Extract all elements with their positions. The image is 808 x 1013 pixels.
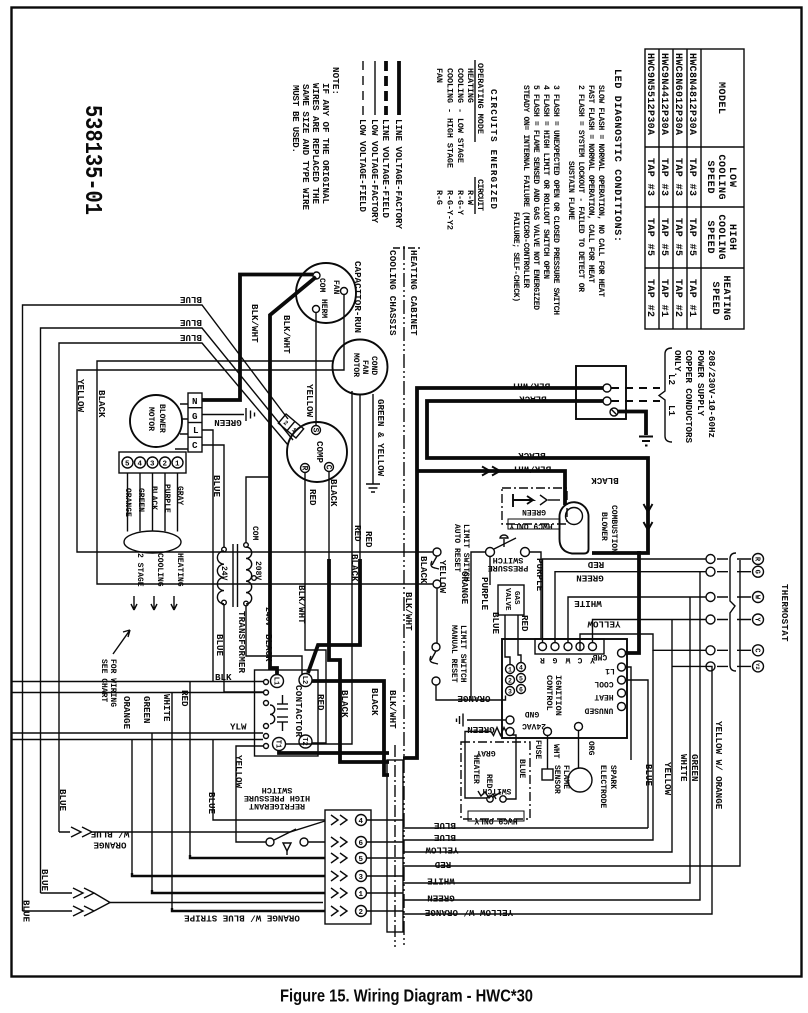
svg-text:UNUSED: UNUSED [584,706,613,715]
wire bottom bus yellow w orange [403,666,712,914]
svg-text:TAP #2: TAP #2 [672,279,683,317]
svg-text:FAN: FAN [360,360,369,375]
wire bottom bus blue2 [403,650,653,840]
svg-text:BLACK: BLACK [96,390,107,418]
wire black 240V to L2 [246,606,302,674]
wire pressure sw left orange [471,552,486,700]
svg-text:CIRCUITS ENERGIZED: CIRCUITS ENERGIZED [488,89,499,209]
wire C row [580,634,706,651]
svg-text:YELLOW W/ ORANGE: YELLOW W/ ORANGE [424,907,513,918]
svg-text:TAP #3: TAP #3 [672,158,683,196]
svg-text:MUST BE USED.: MUST BE USED. [290,85,301,153]
svg-text:ORG: ORG [586,741,595,756]
svg-text:5 FLASH = FLAME SENSED AND GAS: 5 FLASH = FLAME SENSED AND GAS VALVE NOT… [531,85,540,310]
svg-text:N: N [192,396,198,407]
svg-text:BLUE: BLUE [39,869,50,892]
svg-text:COOLING CHASSIS: COOLING CHASSIS [387,250,398,336]
wire orange w blue via chevrons [59,821,325,837]
svg-text:BLOWER: BLOWER [157,404,166,433]
cabinet divider dashed line vertical [403,246,405,945]
svg-text:OPERATING MODE: OPERATING MODE [475,63,485,134]
svg-text:GREEN: GREEN [467,724,495,735]
svg-text:BLUE: BLUE [214,634,225,657]
ground G3 power [618,412,646,436]
svg-text:R-W: R-W [465,190,475,206]
svg-text:TAP #5: TAP #5 [644,218,655,256]
svg-text:GREEN: GREEN [136,488,145,512]
wire Y row [593,620,707,643]
svg-text:LED DIAGNOSTIC CONDITIONS:: LED DIAGNOSTIC CONDITIONS: [611,69,622,242]
svg-text:RED: RED [307,489,318,506]
svg-text:208/230V-1Ø-60Hz: 208/230V-1Ø-60Hz [706,350,717,438]
ground G4 ignition [457,714,507,727]
svg-text:HEAT: HEAT [594,692,613,701]
svg-text:3: 3 [150,461,155,469]
svg-text:WHITE: WHITE [161,694,172,722]
wire bottom bus yellow [403,620,672,853]
wire border feeds h2 [11,692,263,694]
svg-text:BLUE: BLUE [490,612,501,635]
svg-text:COPPER CONDUCTORS: COPPER CONDUCTORS [683,350,694,443]
wire blower feed bold [417,471,565,505]
svg-text:GREEN: GREEN [576,573,604,584]
svg-text:PURPLE: PURPLE [534,558,545,592]
svg-text:YELLOW: YELLOW [425,845,459,856]
connector strip numbered 4 6 5 3 1 2 [325,810,371,924]
compressor terminal R [301,464,310,473]
power supply bracket [659,348,672,442]
wire orange drop to pin3 [131,740,133,874]
svg-text:YELLOW: YELLOW [437,560,448,594]
svg-text:COOL: COOL [594,679,613,688]
svg-text:TAP #5: TAP #5 [672,218,683,256]
flame sensor [542,728,570,795]
svg-text:SPEED: SPEED [709,282,720,315]
svg-text:MOTOR: MOTOR [146,407,155,431]
terminal strip 1-5 blower speed taps [119,452,186,473]
svg-text:HWC9N4412P30A: HWC9N4412P30A [658,53,669,135]
contactor [255,670,319,756]
svg-text:538135-01: 538135-01 [78,105,105,215]
svg-text:T1: T1 [274,740,282,748]
svg-text:BLK: BLK [215,672,232,683]
svg-text:STEADY ON= INTERNAL FAILURE (M: STEADY ON= INTERNAL FAILURE (MICRO-CONTR… [521,85,530,288]
labels: wire colours class a vertical [21,304,725,923]
svg-text:1: 1 [359,891,364,899]
svg-text:WHITE: WHITE [427,876,455,887]
svg-text:BLUE: BLUE [179,294,202,305]
chevrons on blower feed [482,467,500,476]
gas valve [498,585,524,615]
ground G1 blower [202,408,255,421]
svg-text:ORANGE: ORANGE [457,693,491,704]
wire power black bold [427,401,648,553]
labels: reversed class c [90,294,620,924]
svg-text:3: 3 [508,689,512,696]
svg-text:Y2: Y2 [754,663,761,670]
svg-text:RED: RED [434,859,451,870]
wire yellow capacitor fan [77,295,433,552]
wire L2 blk/wht bold to edge connector [312,681,389,775]
wire pressure sw right purple [530,552,542,639]
svg-text:HIGH: HIGH [726,224,737,250]
wire W row [568,597,706,643]
svg-text:SEE CHART: SEE CHART [99,659,108,702]
svg-text:BLUE: BLUE [21,900,32,923]
svg-text:VALVE: VALVE [503,588,511,611]
svg-text:YELLOW: YELLOW [662,762,673,796]
molex pins 1-6 [506,663,526,696]
svg-text:HEATER: HEATER [471,755,480,784]
svg-text:BLACK: BLACK [263,634,274,662]
svg-text:BLACK: BLACK [518,450,546,461]
svg-text:POWER SUPPLY: POWER SUPPLY [695,350,706,416]
svg-text:SUSTAIN FLAME: SUSTAIN FLAME [566,161,575,220]
svg-text:GREEN: GREEN [689,754,700,782]
svg-text:R: R [300,466,309,471]
svg-text:BLUE: BLUE [179,317,202,328]
wire merged blue pair [110,902,323,904]
manual reset limit switch [430,625,467,685]
wire purple gas valve [489,557,491,586]
svg-text:RED: RED [352,525,363,542]
svg-text:COM: COM [250,526,259,541]
svg-text:PURPLE: PURPLE [479,577,490,611]
svg-text:PURPLE: PURPLE [162,484,171,513]
svg-text:SLOW FLASH = NORMAL OPERATION,: SLOW FLASH = NORMAL OPERATION, NO CALL F… [596,85,605,297]
wire manual reset to molex orange [436,685,506,700]
motor M1 condenser fan motor [333,340,388,395]
svg-text:TAP #5: TAP #5 [686,218,697,256]
HWC9 only dash-dot box combustion [502,488,567,530]
svg-text:BLACK: BLACK [591,475,619,486]
svg-text:6: 6 [359,840,364,848]
svg-text:ORANGE: ORANGE [123,488,132,517]
wire red comp R to T2 [305,473,326,744]
legend: low voltage factory sample [374,61,376,115]
svg-text:FOR WIRING: FOR WIRING [108,659,117,707]
wire transformer COM up [246,477,270,543]
wire auto to manual reset link [436,588,438,643]
wire COM to L1 bold [270,277,316,675]
wire blue 24V to contactor coil [224,605,263,692]
svg-text:G: G [192,411,198,422]
svg-text:L2: L2 [666,374,677,385]
svg-text:GREEN: GREEN [427,893,455,904]
svg-text:GRAY: GRAY [175,486,184,505]
svg-text:L1: L1 [666,405,677,417]
svg-text:MANUAL RESET: MANUAL RESET [449,625,458,683]
wire black comp C [328,472,330,561]
wire blower to NGLC [175,404,188,449]
svg-text:LINE VOLTAGE-FIELD: LINE VOLTAGE-FIELD [380,119,391,218]
svg-text:COOLING: COOLING [715,215,726,260]
svg-text:FAN: FAN [434,68,444,83]
svg-text:W: W [565,655,570,664]
wire red cond fan down [285,391,352,744]
svg-text:2 FLASH = SYSTEM LOCKOUT - FAI: 2 FLASH = SYSTEM LOCKOUT - FAILED TO DET… [576,85,585,292]
svg-text:R: R [540,655,545,664]
wire G row [555,572,706,643]
svg-text:YELLOW W/ ORANGE: YELLOW W/ ORANGE [713,721,724,810]
svg-text:RED: RED [519,615,530,632]
thermostat [706,553,764,672]
primary coil 208V 240V [246,547,252,604]
svg-text:BLACK: BLACK [369,688,380,716]
spark electrode [568,723,617,809]
svg-text:2 STAGE: 2 STAGE [135,553,144,587]
transformer T1 [217,526,272,673]
wire red drop to pin5 [189,682,191,855]
svg-text:BLUE: BLUE [433,832,456,843]
svg-text:BLUE: BLUE [206,792,217,815]
svg-text:LOW: LOW [726,167,737,187]
wire yellow herm to S [315,313,317,426]
svg-text:BLK/WHT: BLK/WHT [511,381,550,392]
wire blue 1 chevron joint [23,903,111,917]
wire blue 2 chevron joint [41,888,111,903]
wire yellow contactor to pressure switch [236,746,266,842]
svg-text:YELLOW: YELLOW [75,379,86,413]
legend: low voltage field sample [362,61,364,115]
svg-text:S: S [311,428,320,433]
capacitor terminal HERM [313,306,320,313]
wire border feeds h4 [11,739,263,741]
compressor plug connector 2 1 [278,414,303,438]
chevrons down on black [644,504,653,530]
svg-text:LOW VOLTAGE-FACTORY: LOW VOLTAGE-FACTORY [369,119,380,223]
wire 24vac gray into heater box [465,732,516,800]
svg-text:HWC9 ONLY: HWC9 ONLY [474,816,517,825]
see chart arrow [113,630,130,654]
svg-text:BLK/WHT: BLK/WHT [512,464,551,475]
svg-text:L1: L1 [272,677,280,685]
capacitor terminal FAN [341,288,348,295]
svg-text:HEATING CABINET: HEATING CABINET [408,250,419,336]
wire gas valve blue to pin1 [505,615,510,664]
svg-text:GREEN: GREEN [141,696,152,724]
wire L cell to contactor BLK [202,430,213,682]
wire cmb to blower circuit [626,551,640,653]
svg-text:4 FLASH = HIGH LIMIT OR ROLLOU: 4 FLASH = HIGH LIMIT OR ROLLOUT SWITCH O… [541,85,550,279]
svg-text:BLACK: BLACK [328,479,339,507]
wire gas valve red to pin4 [518,615,521,662]
pressure switch [486,535,530,573]
wire ignition L1 [626,667,632,760]
svg-text:TAP #3: TAP #3 [658,158,669,196]
svg-text:GAS: GAS [512,591,520,605]
svg-text:YELLOW: YELLOW [587,619,621,630]
svg-text:HEATING: HEATING [720,276,731,321]
svg-text:LINE VOLTAGE-FACTORY: LINE VOLTAGE-FACTORY [393,119,404,229]
svg-text:MODEL: MODEL [715,82,726,114]
svg-text:G: G [753,570,761,574]
svg-text:HWC8N4812P30A: HWC8N4812P30A [686,53,697,135]
svg-text:R-G-Y: R-G-Y [455,190,465,216]
svg-text:L2: L2 [300,676,308,684]
ground G2 cond fan [366,394,380,492]
svg-text:SPARK: SPARK [608,765,617,789]
HWC9 only dash-dot box heater [461,742,530,825]
svg-text:TAP #3: TAP #3 [644,158,655,196]
wire ignition cool [626,680,649,828]
svg-text:COOLING - HIGH STAGE: COOLING - HIGH STAGE [445,68,455,168]
svg-text:ONLY.: ONLY. [672,350,683,377]
svg-text:HERM: HERM [319,299,328,318]
svg-text:CONTROL: CONTROL [544,675,554,711]
wire border feeds h3 ylw [11,732,263,734]
wire bottom bus blue1 [403,827,648,829]
svg-text:6: 6 [519,687,523,694]
wire bottom bus red [403,560,740,866]
svg-text:COMBUSTION: COMBUSTION [609,505,618,553]
motor M2 blower motor [130,395,182,447]
wire border feeds h1 [11,681,263,683]
svg-text:4: 4 [519,665,523,672]
legend: line voltage field sample [384,61,388,115]
refrigerant high pressure switch [244,785,310,855]
svg-text:FAN: FAN [331,280,340,295]
wire blue 1 left [23,305,289,911]
svg-text:GREEN: GREEN [522,507,546,516]
wire blue 2 left [41,328,294,893]
dashed field leads L2 L1 [611,387,660,389]
svg-text:L1: L1 [605,666,615,675]
wire black cond fan down bold to L2 [359,394,361,560]
svg-text:2: 2 [359,909,364,917]
wire connector strip to edge connector [367,820,404,911]
svg-text:BLK/WHT: BLK/WHT [296,585,307,624]
wire pressure switch to pin6 [308,841,325,843]
wire blue 3 left [59,343,288,832]
svg-text:REFRIGERANT: REFRIGERANT [249,801,305,811]
wire power blk/wht bold [403,388,603,758]
svg-text:ORANGE: ORANGE [93,840,127,851]
svg-text:HEATING: HEATING [465,68,475,103]
wire N to COM bold [202,275,313,401]
svg-text:24V: 24V [219,566,228,581]
svg-text:CONTACTOR: CONTACTOR [293,685,304,737]
MODEL table frame [645,49,744,329]
svg-text:COMP: COMP [314,441,325,464]
wire T1 bold to edge connector [279,751,389,754]
svg-text:TAP #5: TAP #5 [658,218,669,256]
svg-text:SENSOR: SENSOR [552,765,561,794]
svg-text:FAILURE; SELF-CHECK): FAILURE; SELF-CHECK) [511,212,520,302]
svg-text:COOLING: COOLING [155,553,164,587]
cabinet divider top tick [393,247,420,249]
svg-text:ORANGE: ORANGE [121,696,132,730]
combustion blower [560,502,619,553]
svg-text:HWC9 ONLY: HWC9 ONLY [509,521,552,530]
svg-text:BLACK: BLACK [149,486,158,510]
svg-text:YLW: YLW [230,722,247,733]
svg-text:BLUE: BLUE [179,332,202,343]
legend: line voltage factory sample [397,61,401,115]
svg-text:3 FLASH = UNEXPECTED OPEN OR C: 3 FLASH = UNEXPECTED OPEN OR CLOSED PRES… [551,85,560,315]
svg-text:BLUE: BLUE [643,764,654,787]
contactor coil [264,680,269,685]
svg-text:BLUE: BLUE [517,759,526,778]
svg-text:C: C [753,648,761,652]
compressor terminal S [312,426,321,435]
svg-text:CAPACITOR-RUN: CAPACITOR-RUN [352,261,363,333]
svg-text:C: C [324,465,333,470]
wire R row [543,559,707,643]
secondary coil 24V [217,551,224,604]
svg-text:BLUE: BLUE [57,789,68,812]
node ellipse wire harness [124,531,181,553]
wire bottom bus white [403,597,690,883]
svg-text:COM: COM [317,278,326,293]
svg-text:TAP #1: TAP #1 [658,279,669,317]
svg-text:HWC8N6012P30A: HWC8N6012P30A [672,53,683,135]
svg-text:WHITE: WHITE [574,598,602,609]
svg-text:R-G: R-G [434,190,444,205]
svg-text:24VAC: 24VAC [522,721,546,730]
svg-text:TAP #3: TAP #3 [686,158,697,196]
svg-text:W/ BLUE: W/ BLUE [90,829,129,840]
svg-text:Figure 15. Wiring Diagram - HW: Figure 15. Wiring Diagram - HWC*30 [280,986,533,1006]
svg-text:WHT: WHT [551,744,560,759]
wire black cond fan [97,361,433,584]
svg-text:FUSE: FUSE [533,740,542,759]
ignition control box [502,639,627,738]
svg-text:CIRCUIT: CIRCUIT [475,179,485,211]
auto reset limit switch [431,524,470,588]
svg-text:5: 5 [125,461,130,469]
svg-text:1: 1 [508,667,512,674]
svg-text:HEATING: HEATING [175,553,184,587]
svg-text:BLACK: BLACK [349,554,360,582]
wire blue C cell to 24V [202,445,224,547]
svg-text:SPEED: SPEED [704,221,715,254]
capacitor terminal COM [313,272,320,279]
svg-text:BLACK: BLACK [418,556,429,584]
svg-text:GREEN: GREEN [214,417,242,428]
wire Y2 row [672,665,706,667]
svg-text:RED: RED [179,690,190,707]
svg-text:CMB: CMB [593,652,608,661]
svg-text:MOTOR: MOTOR [351,353,360,377]
svg-text:2: 2 [508,678,512,685]
svg-text:1: 1 [175,461,180,469]
svg-text:BLUE: BLUE [433,820,456,831]
svg-text:4: 4 [359,818,364,826]
svg-text:BLK/WHT: BLK/WHT [249,304,260,343]
svg-text:208V: 208V [253,561,262,580]
svg-text:GND: GND [525,709,540,718]
svg-text:5: 5 [519,676,523,683]
svg-text:HWC9N5512P30A: HWC9N5512P30A [644,53,655,135]
terminal strip N G L C [188,393,202,452]
edge connector between cabinets [387,745,403,947]
svg-text:3: 3 [359,874,364,882]
svg-text:GREEN & YELLOW: GREEN & YELLOW [375,399,386,477]
svg-text:TAP #1: TAP #1 [686,279,697,317]
svg-text:ELECTRODE: ELECTRODE [598,765,607,808]
wire green drop to pin1 [151,733,153,890]
svg-text:BLK/WHT: BLK/WHT [387,690,398,729]
svg-text:YELLOW: YELLOW [304,384,315,418]
heater element [478,791,496,799]
svg-text:GRAY: GRAY [476,748,495,757]
contactor contacts [277,703,288,705]
wire white drop to pin2 [171,693,173,909]
transformer core [232,544,234,607]
wire blue drop to pin4 [213,740,325,821]
svg-text:5: 5 [359,856,364,864]
